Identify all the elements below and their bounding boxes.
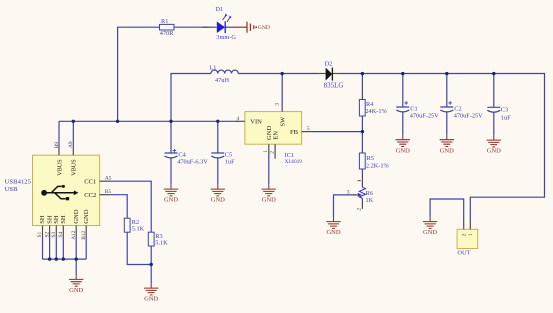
svg-text:1: 1: [263, 150, 269, 153]
pin S4 SH: [62, 226, 64, 237]
svg-text:GND: GND: [144, 296, 158, 303]
node junction C3: [492, 72, 495, 75]
wire C2 branch: [446, 74, 448, 107]
wire L1 branch vertical: [171, 74, 211, 122]
svg-text:GND: GND: [211, 197, 225, 204]
svg-text:VBUS: VBUS: [71, 159, 78, 176]
svg-text:S1: S1: [37, 232, 43, 238]
svg-text:470uF-25V: 470uF-25V: [454, 113, 483, 120]
svg-text:USB4125: USB4125: [5, 178, 32, 185]
wire IC GND pin to GND: [268, 154, 270, 185]
wire R3 to junction: [150, 246, 152, 284]
svg-text:GND: GND: [440, 147, 454, 154]
svg-text:CC1: CC1: [84, 179, 96, 186]
resistor R1: [160, 18, 175, 37]
ground GND under C3: [487, 136, 502, 155]
svg-text:XL6019: XL6019: [285, 159, 303, 165]
node junction A9/bus: [72, 120, 75, 123]
svg-text:CC2: CC2: [84, 192, 96, 199]
resistor R4: [359, 100, 387, 117]
pin A9 VBUS: [72, 146, 74, 155]
pin S1 SH: [42, 226, 44, 237]
svg-text:EN: EN: [273, 131, 280, 140]
node junction S2: [48, 257, 51, 260]
node junction R1 branch: [116, 120, 119, 123]
inductor L1: [209, 65, 238, 84]
pin B5 CC2: [100, 194, 110, 196]
node junction R2/R3: [150, 263, 153, 266]
svg-text:1uF: 1uF: [225, 159, 235, 166]
svg-text:GND: GND: [69, 287, 83, 294]
ground GND under C5: [211, 185, 226, 204]
pin 1 GND: [268, 144, 270, 154]
pin S3 SH: [55, 226, 57, 237]
pin B12 GND: [85, 226, 87, 237]
svg-text:C3: C3: [501, 107, 508, 114]
node junction S4: [62, 257, 65, 260]
svg-text:B9: B9: [54, 142, 60, 149]
wire from bus up to R1: [118, 27, 160, 121]
resistor R2: [124, 218, 144, 232]
svg-text:A12: A12: [71, 230, 77, 240]
ground GND under USB: [69, 275, 84, 294]
pin B9 VBUS: [58, 146, 60, 155]
svg-text:S3: S3: [51, 232, 57, 238]
svg-text:R6: R6: [366, 190, 373, 197]
svg-text:GND: GND: [258, 25, 270, 31]
pin A12 GND: [75, 226, 77, 237]
svg-text:SH: SH: [39, 215, 46, 224]
ground GND under C2: [440, 135, 455, 154]
svg-text:1uF: 1uF: [501, 115, 511, 122]
svg-text:OUT: OUT: [457, 250, 470, 257]
node junction FB: [361, 130, 364, 133]
diode D2: [318, 61, 344, 90]
pin S2 SH: [49, 226, 51, 237]
svg-text:S4: S4: [58, 232, 64, 238]
svg-text:A9: A9: [68, 141, 74, 148]
capacitor C2: [440, 101, 483, 119]
svg-text:USB: USB: [5, 186, 19, 193]
node junction R4 top: [361, 72, 364, 75]
svg-text:835LG: 835LG: [324, 82, 344, 90]
wire C5 to GND: [217, 158, 219, 185]
IC U1 XL6019 box: [236, 103, 311, 165]
svg-text:2: 2: [270, 151, 276, 154]
wire R6 wiper to GND: [334, 195, 357, 217]
wire C3 branch: [493, 74, 495, 108]
capacitor C4: [165, 149, 209, 166]
pin 1 of OUT: [469, 220, 471, 229]
wire top bus to R4: [361, 74, 363, 100]
node junction S3: [55, 257, 58, 260]
svg-text:GND: GND: [487, 148, 501, 155]
wire C5 branch: [217, 121, 219, 153]
svg-text:GND: GND: [83, 209, 90, 224]
svg-text:GND: GND: [326, 229, 340, 236]
USB connector J1 box: [5, 141, 112, 240]
wire FB to divider: [311, 131, 362, 133]
wire VBUS bus from USB to VIN: [59, 120, 238, 122]
wire C3 to GND: [493, 112, 495, 135]
svg-text:VIN: VIN: [250, 119, 262, 126]
svg-text:R4: R4: [366, 101, 374, 108]
svg-text:S2: S2: [44, 232, 50, 238]
capacitor C5: [211, 152, 235, 166]
svg-text:R5: R5: [367, 155, 374, 162]
svg-text:1: 1: [468, 233, 474, 236]
pin 4 VIN: [236, 120, 245, 122]
svg-text:47uH: 47uH: [215, 77, 229, 84]
svg-text:5.1K: 5.1K: [132, 226, 145, 233]
wire D2 to right corner down to OUT: [341, 74, 545, 221]
wire USB shield pins join bus: [43, 236, 87, 275]
svg-text:470uF-6.3V: 470uF-6.3V: [177, 159, 208, 166]
svg-text:L1: L1: [209, 65, 216, 72]
svg-text:SH: SH: [60, 215, 67, 224]
wire C4 to GND: [170, 158, 172, 185]
pin 5 FB: [302, 131, 311, 133]
wire CC1 A5 to R3: [110, 181, 152, 232]
svg-text:SW: SW: [280, 116, 287, 127]
ground GND under C4: [164, 185, 179, 204]
node junction SW: [281, 72, 284, 75]
resistor R3: [148, 232, 168, 247]
ground GND under R3: [144, 284, 159, 303]
ground GND under C1: [396, 135, 411, 154]
svg-text:GND: GND: [396, 147, 410, 154]
svg-text:D1: D1: [215, 6, 223, 13]
svg-text:VBUS: VBUS: [56, 159, 63, 176]
svg-text:R1: R1: [161, 18, 168, 25]
svg-text:1K: 1K: [366, 197, 374, 204]
pin 2 of OUT: [463, 220, 465, 229]
wire L1 to D2: [238, 73, 317, 75]
wire SW pin to top bus: [281, 74, 283, 103]
svg-text:3: 3: [274, 103, 280, 106]
svg-text:C2: C2: [454, 105, 461, 112]
svg-text:D2: D2: [325, 61, 333, 68]
pin A5 CC1: [100, 180, 110, 182]
wire B9 vertical: [58, 121, 60, 146]
wire R1 to D1: [174, 26, 209, 28]
node junction A12: [75, 257, 78, 260]
potentiometer R6: [347, 178, 374, 211]
svg-text:470uF-25V: 470uF-25V: [410, 113, 439, 120]
ground GND for R6 wiper: [326, 217, 341, 236]
ground GND under IC pin: [262, 185, 277, 204]
svg-text:5.1K: 5.1K: [155, 240, 168, 247]
wire C2 to GND: [446, 112, 448, 135]
USB logo: [41, 190, 47, 196]
wire CC2 B5 to R2: [110, 195, 128, 219]
wire R2 bottom to R3 column: [127, 232, 151, 264]
wire C1 branch: [402, 74, 404, 107]
wire C4 branch: [170, 121, 172, 153]
svg-text:C1: C1: [410, 105, 417, 112]
node junction C2: [445, 72, 448, 75]
connector OUT box: [457, 220, 478, 257]
node junction C1: [401, 72, 404, 75]
pin 2 EN: [274, 144, 276, 159]
svg-text:SH: SH: [53, 215, 60, 224]
svg-text:GND: GND: [262, 197, 276, 204]
node junction L1/C4 branch: [169, 120, 172, 123]
svg-text:GND: GND: [164, 197, 178, 204]
wire R4 to R5: [361, 116, 363, 153]
svg-text:470R: 470R: [160, 30, 174, 37]
capacitor C3: [487, 107, 511, 122]
wire A9 vertical: [72, 121, 74, 146]
ground flag GND (right of D1): [236, 22, 270, 33]
pin 3 SW: [281, 103, 283, 112]
svg-text:B12: B12: [81, 231, 87, 240]
svg-text:2: 2: [356, 208, 362, 211]
wire C1 to GND: [402, 112, 404, 135]
svg-text:2.2K-1%: 2.2K-1%: [366, 162, 390, 169]
ground GND left of OUT: [423, 217, 438, 236]
svg-text:A5: A5: [105, 176, 112, 182]
svg-text:GND: GND: [73, 209, 80, 224]
svg-text:3: 3: [347, 189, 350, 195]
wire R5 to R6: [361, 169, 363, 178]
node junction C5 branch: [216, 120, 219, 123]
svg-text:FB: FB: [290, 129, 299, 136]
resistor R5: [359, 153, 389, 169]
svg-text:B5: B5: [105, 189, 112, 195]
svg-text:24K-1%: 24K-1%: [365, 108, 387, 115]
svg-text:GND: GND: [423, 229, 437, 236]
wire OUT pin2 to GND: [430, 199, 464, 220]
LED D1: [202, 6, 236, 41]
svg-text:2: 2: [461, 233, 467, 236]
capacitor C1: [396, 101, 439, 119]
svg-text:5: 5: [307, 126, 310, 132]
svg-text:4: 4: [237, 116, 240, 122]
svg-text:3mm-G: 3mm-G: [216, 34, 236, 41]
